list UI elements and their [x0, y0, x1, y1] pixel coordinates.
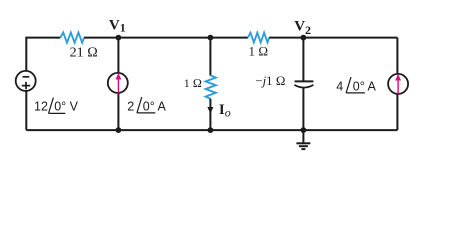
- capacitor C1 top plate: [295, 80, 314, 82]
- svg-text:−j1 Ω: −j1 Ω: [255, 74, 285, 88]
- label CS2 value 4/0 A: [336, 77, 376, 93]
- wire branch2 lower: [117, 93, 119, 130]
- current source CS1 circle: [108, 73, 128, 93]
- node V2 dot: [301, 35, 307, 41]
- label CS1 value 2/0 A: [127, 97, 166, 113]
- wire right branch lower: [396, 94, 398, 130]
- wire branch3 upper: [209, 38, 211, 76]
- svg-text:V1: V1: [109, 17, 126, 34]
- svg-text:0° V: 0° V: [54, 100, 78, 114]
- svg-text:1 Ω: 1 Ω: [249, 44, 269, 59]
- node junction top dot: [208, 35, 214, 41]
- wire right branch upper: [396, 38, 398, 74]
- node bottom dot branch4: [301, 127, 307, 133]
- wire branch3 lower: [209, 99, 211, 130]
- current Io arrowhead: [207, 107, 213, 114]
- wire branch4 capacitor top lead: [302, 38, 304, 81]
- voltage source VS1 circle: [16, 71, 36, 91]
- svg-text:V2: V2: [294, 19, 311, 38]
- wire top junction to R2: [210, 37, 248, 39]
- node V1 dot: [116, 35, 122, 41]
- resistor R3 1ohm vertical: [206, 76, 216, 99]
- CS1 arrow: [116, 73, 122, 93]
- svg-text:2: 2: [127, 99, 134, 113]
- wire branch4 lower lead: [302, 88, 304, 131]
- wire top-left segment: [26, 38, 60, 72]
- svg-text:1 Ω: 1 Ω: [184, 76, 202, 90]
- label VS1 value 12/0 V: [34, 98, 79, 114]
- VS1 minus sign: [23, 76, 30, 78]
- resistor R2 1ohm: [248, 33, 269, 43]
- svg-text:4: 4: [336, 79, 343, 93]
- ground bar1: [296, 142, 310, 144]
- node bottom dot branch3: [208, 127, 214, 133]
- VS1 plus sign: [22, 82, 30, 89]
- wire top V1 to junction: [84, 37, 210, 39]
- svg-text:Io: Io: [219, 102, 231, 120]
- current source CS2 circle: [388, 74, 408, 94]
- wire bottom rail: [26, 129, 397, 131]
- capacitor C1 bottom curved plate: [294, 85, 313, 88]
- svg-text:0° A: 0° A: [143, 99, 167, 113]
- resistor R1 21ohm: [60, 33, 84, 43]
- ground bar2: [299, 145, 308, 147]
- wire top R2 to V2 to right corner: [269, 37, 397, 39]
- CS2 arrow: [395, 74, 401, 94]
- wire branch2 upper: [117, 38, 119, 73]
- svg-text:21 Ω: 21 Ω: [70, 46, 98, 61]
- svg-text:12: 12: [34, 100, 48, 114]
- svg-text:0° A: 0° A: [353, 79, 377, 93]
- ground bar3: [301, 148, 305, 150]
- wire left branch lower: [25, 91, 27, 131]
- ground stem: [302, 130, 304, 143]
- node bottom dot branch2: [116, 127, 122, 133]
